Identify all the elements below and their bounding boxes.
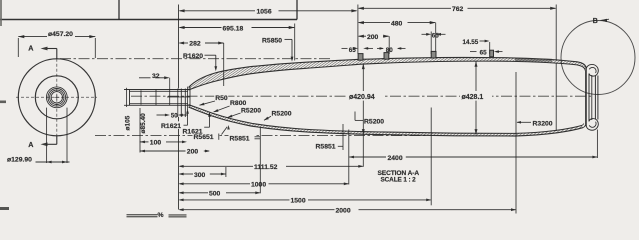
svg-text:ø129.90: ø129.90 — [7, 157, 32, 164]
svg-text:50: 50 — [171, 113, 178, 119]
svg-text:282: 282 — [189, 41, 201, 48]
svg-text:762: 762 — [452, 6, 464, 13]
svg-text:2000: 2000 — [336, 207, 351, 214]
svg-text:65: 65 — [432, 32, 440, 39]
svg-text:R5851: R5851 — [316, 144, 336, 151]
svg-text:480: 480 — [391, 20, 403, 27]
svg-text:1056: 1056 — [257, 9, 272, 16]
svg-text:200: 200 — [367, 34, 379, 41]
svg-text:R5200: R5200 — [272, 111, 292, 118]
svg-text:SCALE 1 : 2: SCALE 1 : 2 — [381, 177, 417, 184]
svg-text:695.18: 695.18 — [223, 25, 244, 32]
svg-text:R1620: R1620 — [183, 53, 203, 60]
svg-text:80: 80 — [386, 47, 394, 54]
svg-text:ø420.94: ø420.94 — [349, 94, 375, 101]
svg-text:14.55: 14.55 — [463, 39, 479, 46]
svg-text:%: % — [158, 212, 164, 219]
svg-text:65: 65 — [480, 50, 488, 57]
svg-text:1111.52: 1111.52 — [254, 164, 278, 171]
svg-text:ø457.20: ø457.20 — [48, 31, 73, 38]
svg-text:A: A — [28, 44, 33, 53]
svg-text:ø85.40: ø85.40 — [140, 113, 147, 134]
svg-text:ø428.1: ø428.1 — [462, 94, 484, 101]
svg-text:R3200: R3200 — [533, 120, 553, 127]
svg-text:R5651: R5651 — [194, 134, 214, 141]
svg-text:100: 100 — [150, 139, 162, 146]
svg-text:300: 300 — [194, 172, 206, 179]
svg-text:B: B — [593, 16, 598, 25]
svg-text:65: 65 — [349, 47, 357, 54]
svg-text:1500: 1500 — [291, 197, 306, 204]
svg-text:200: 200 — [187, 149, 199, 156]
svg-text:500: 500 — [209, 190, 221, 197]
svg-text:1000: 1000 — [251, 182, 266, 189]
svg-text:R5850: R5850 — [262, 37, 282, 44]
svg-text:R50: R50 — [215, 95, 228, 102]
svg-text:R5200: R5200 — [241, 107, 261, 114]
svg-text:A: A — [28, 140, 33, 149]
svg-text:R1621: R1621 — [161, 123, 181, 130]
svg-text:2400: 2400 — [388, 155, 403, 162]
svg-text:R5200: R5200 — [364, 119, 384, 126]
svg-text:32: 32 — [152, 73, 160, 80]
svg-text:ø105: ø105 — [124, 115, 131, 130]
svg-text:R5851: R5851 — [230, 135, 250, 142]
